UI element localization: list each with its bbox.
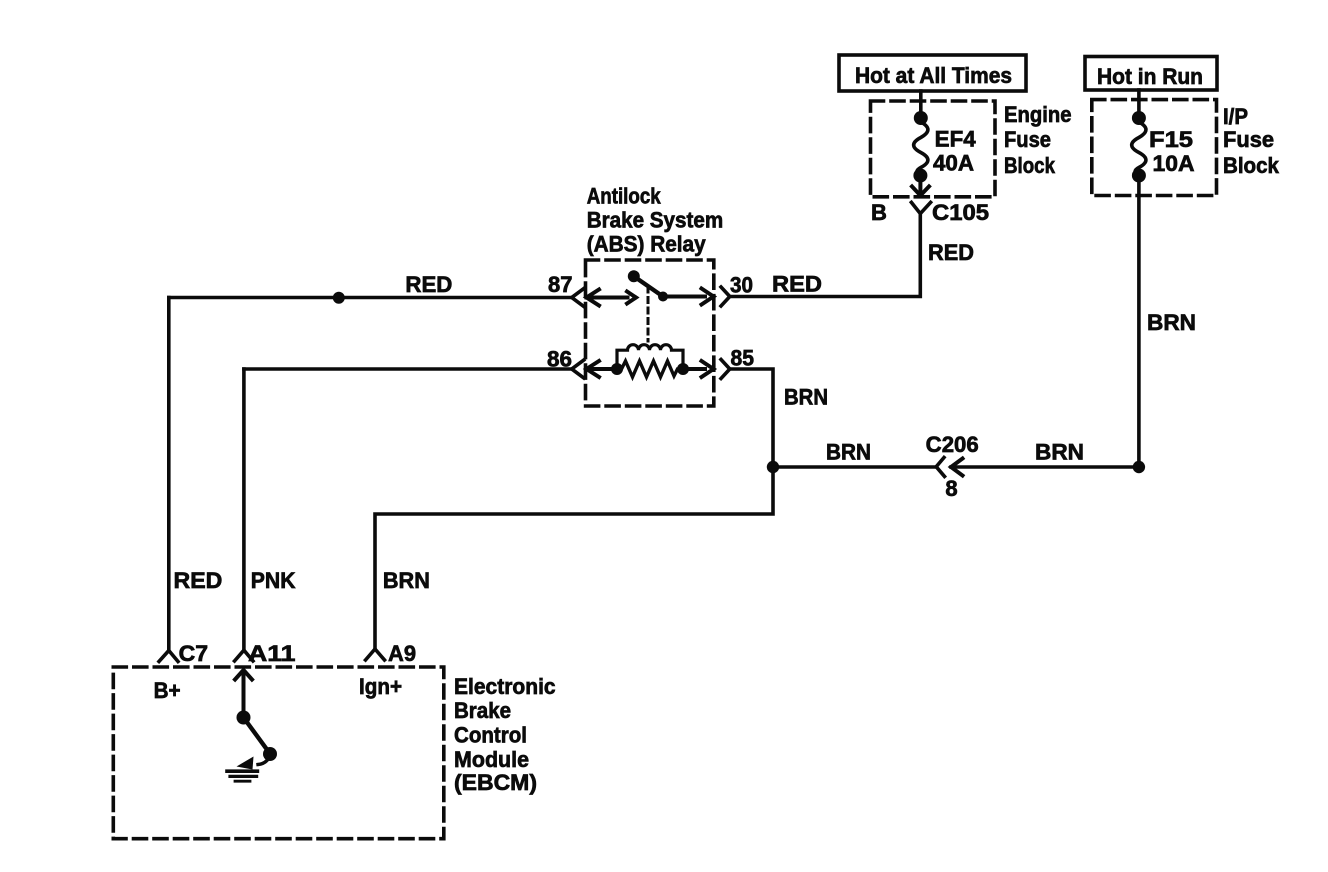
wire PNK from left to relay pin 86 [244,367,572,371]
wire RED from C105 down and left to relay pin 30 [730,214,974,297]
relay pin 85 connector [683,346,754,379]
label Electronic Brake Control Module (EBCM) [454,674,556,795]
svg-text:C7: C7 [179,641,209,666]
svg-text:Hot at All Times: Hot at All Times [855,63,1012,88]
relay pin 30 connector [663,273,753,307]
svg-text:10A: 10A [1153,151,1195,176]
svg-text:Engine: Engine [1004,102,1072,127]
wire from Hot at All Times to fuse EF4 [919,91,923,118]
svg-text:Ign+: Ign+ [359,674,402,699]
label I/P Fuse Block [1223,104,1280,178]
wire RED down to EBCM pin C7 [169,298,223,651]
engine fuse block dashed box [871,101,996,197]
svg-text:EF4: EF4 [935,127,977,152]
svg-text:Electronic: Electronic [454,674,556,699]
svg-text:(ABS) Relay: (ABS) Relay [587,232,707,257]
wire BRN from pin 85 down-left to EBCM pin A9 [375,369,828,649]
svg-text:A9: A9 [388,641,416,666]
junction node at F15 wire corner [1133,461,1145,473]
svg-text:Antilock: Antilock [587,184,662,209]
EBCM internal switch to ground [237,711,278,765]
svg-text:BRN: BRN [784,385,828,410]
relay pin 86 connector [547,347,617,379]
svg-text:Control: Control [454,723,527,748]
svg-text:BRN: BRN [383,568,430,593]
svg-text:(EBCM): (EBCM) [454,770,537,795]
fuse EF4 40A [913,111,976,183]
svg-text:BRN: BRN [1147,310,1196,335]
power label Hot in Run [1085,57,1217,91]
wire BRN from F15 down to C206 junction [1139,176,1196,468]
wire PNK down to EBCM pin A11 [244,369,296,650]
connector C7 [159,641,208,666]
svg-text:Brake: Brake [454,698,511,723]
ABS relay dashed box [586,260,714,406]
svg-text:40A: 40A [933,151,974,176]
svg-text:B+: B+ [154,678,181,703]
connector C206 pin 8 [926,432,979,501]
connector A11 [235,641,296,666]
junction node on RED wire [333,292,345,304]
svg-text:RED: RED [772,272,822,297]
svg-text:Fuse: Fuse [1223,127,1274,152]
EBCM dashed box [113,667,444,839]
svg-text:B: B [871,200,887,225]
svg-text:8: 8 [945,476,957,501]
svg-text:Brake System: Brake System [587,208,724,233]
junction node BRN/C206 [767,461,779,473]
relay pin 87 connector [548,272,636,307]
relay switch contact [628,270,668,301]
svg-text:PNK: PNK [251,568,296,593]
svg-text:Block: Block [1004,153,1056,178]
svg-text:BRN: BRN [826,440,871,465]
svg-text:BRN: BRN [1035,440,1084,465]
svg-text:87: 87 [548,272,573,297]
wire from Hot in Run to fuse F15 [1137,90,1141,118]
svg-text:Module: Module [454,747,529,772]
svg-text:F15: F15 [1149,127,1193,152]
relay mechanical link (dashed) [647,287,650,341]
wire BRN C206 left segment [773,440,936,468]
I/P fuse block dashed box [1092,100,1217,196]
svg-text:C105: C105 [932,200,989,225]
svg-text:86: 86 [547,347,572,372]
svg-text:Hot in Run: Hot in Run [1097,64,1203,89]
svg-text:Fuse: Fuse [1004,127,1051,152]
connector A9 [366,641,417,666]
relay label Antilock Brake System (ABS) Relay [587,184,724,257]
svg-text:C206: C206 [926,432,979,457]
EBCM internal switch pin arrow (A11) [235,670,252,716]
svg-text:85: 85 [731,346,755,371]
relay resistor [611,361,689,377]
svg-text:Block: Block [1223,153,1280,178]
svg-text:A11: A11 [248,641,296,666]
ground symbol [227,757,257,782]
svg-text:30: 30 [730,273,753,298]
connector C105 (arrow from fuse block, chevron on wire) [871,180,989,225]
wire BRN C206 right segment [951,440,1139,468]
power label Hot at All Times [839,55,1026,91]
svg-text:RED: RED [928,240,974,265]
relay coil (parallel branch with bumps) [617,345,683,369]
wire RED from left to relay pin 87 [169,272,572,298]
svg-text:RED: RED [174,568,223,593]
svg-text:RED: RED [405,272,452,297]
svg-text:I/P: I/P [1223,104,1248,129]
label Engine Fuse Block [1004,102,1072,178]
fuse F15 10A [1132,111,1195,183]
